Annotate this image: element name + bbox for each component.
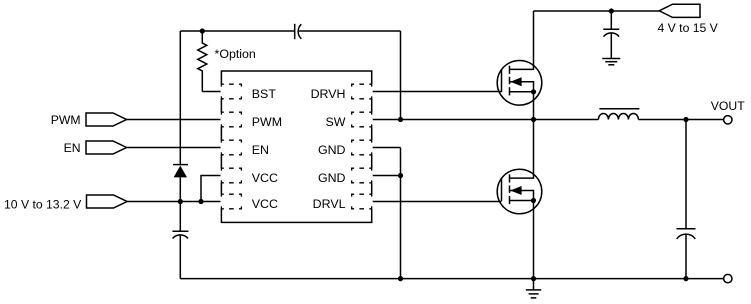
svg-text:PWM: PWM bbox=[252, 115, 282, 129]
pin box dashes DRVH bbox=[352, 84, 372, 99]
inductor L1 bbox=[598, 109, 639, 120]
wire bootstrap cap vertical bbox=[400, 31, 402, 120]
svg-text:DRVH: DRVH bbox=[311, 87, 346, 101]
node junction vcc elbow bbox=[198, 199, 203, 204]
svg-text:10 V to 13.2 V: 10 V to 13.2 V bbox=[4, 198, 82, 212]
pin stub SW wire to inductor bbox=[372, 119, 599, 121]
pin box PWM bbox=[221, 112, 242, 127]
diode D1 bootstrap bbox=[173, 165, 188, 178]
svg-text:GND: GND bbox=[318, 143, 346, 157]
capacitor CBST bootstrap bbox=[295, 24, 302, 39]
pin stub DRVH bbox=[372, 91, 502, 93]
pin box GND1 bbox=[352, 140, 373, 155]
pin box DRVH bbox=[352, 84, 373, 99]
svg-text:BST: BST bbox=[252, 87, 277, 101]
node junction gnd rail bbox=[398, 276, 403, 281]
svg-text:GND: GND bbox=[318, 171, 346, 185]
svg-text:EN: EN bbox=[64, 141, 81, 155]
wire EN to pin bbox=[127, 147, 222, 149]
op-amp U1 driver IC body bbox=[221, 71, 371, 222]
wire bottom rail bbox=[180, 278, 723, 280]
wire vcc cap to bottom rail bbox=[179, 235, 181, 279]
node junction SW bootstrap bbox=[398, 117, 403, 122]
node junction output cap rail bbox=[683, 276, 688, 281]
node junction input cap bbox=[609, 8, 614, 13]
pin box dashes GND1 bbox=[352, 140, 372, 155]
wire inductor to vout bbox=[638, 119, 723, 121]
resistor R-option bbox=[198, 31, 207, 92]
transistor Q1 high-side nmos bbox=[497, 11, 542, 120]
pin box VCC2 bbox=[221, 194, 242, 209]
capacitor C-IN input bbox=[603, 11, 619, 59]
pin box dashes VCC2 bbox=[221, 194, 241, 209]
wire elbow to upper VCC pin bbox=[201, 176, 221, 202]
wire GND vertical bbox=[400, 148, 402, 279]
wire top bootstrap right segment bbox=[298, 30, 400, 32]
wire resistor to BST pin bbox=[202, 91, 221, 93]
input tab 10V-13.2V bbox=[87, 195, 128, 208]
node junction GND2 bbox=[398, 173, 403, 178]
svg-text:PWM: PWM bbox=[51, 113, 81, 127]
input tab 4V-15V bbox=[659, 4, 700, 17]
pin box dashes PWM bbox=[221, 112, 241, 127]
wire top supply rail bbox=[534, 10, 660, 12]
pin box dashes DRVL bbox=[352, 194, 372, 209]
wire top bootstrap left segment bbox=[180, 30, 294, 32]
node junction vcc rail bbox=[178, 199, 183, 204]
svg-text:VCC: VCC bbox=[252, 171, 278, 185]
node junction SW fet bbox=[531, 117, 536, 122]
ground main bbox=[526, 279, 541, 298]
wire left rail diode to vcc junction bbox=[179, 177, 181, 231]
wire PWM to pin bbox=[127, 119, 222, 121]
pin box GND2 bbox=[352, 168, 373, 183]
node junction top resistor bbox=[200, 28, 205, 33]
wire left rail upper (top wire to diode cathode) bbox=[179, 31, 181, 165]
svg-text:*Option: *Option bbox=[215, 47, 256, 61]
pin box dashes VCC1 bbox=[221, 168, 241, 183]
pin box EN bbox=[221, 140, 242, 155]
ground input cap bbox=[602, 59, 620, 65]
terminal VOUT bbox=[724, 116, 732, 124]
pin stub DRVL wire to gate bbox=[372, 201, 502, 203]
pin box dashes SW bbox=[352, 112, 372, 127]
svg-text:SW: SW bbox=[326, 115, 346, 129]
wire 10V to VCC pin bbox=[127, 201, 221, 203]
pin box VCC1 bbox=[221, 168, 242, 183]
svg-text:VCC: VCC bbox=[252, 197, 278, 211]
svg-text:DRVL: DRVL bbox=[313, 197, 346, 211]
input tab EN bbox=[86, 141, 127, 154]
terminal bottom right bbox=[724, 274, 732, 282]
svg-text:4 V to 15 V: 4 V to 15 V bbox=[658, 21, 719, 35]
node junction vout bbox=[683, 117, 688, 122]
node junction fet source rail bbox=[531, 276, 536, 281]
pin box DRVL bbox=[352, 194, 373, 209]
pin box SW bbox=[352, 112, 373, 127]
pin stub GND2 bbox=[372, 175, 401, 177]
pin box dashes GND2 bbox=[352, 168, 372, 183]
pin box BST bbox=[221, 84, 242, 99]
capacitor C-VCC decoupling bbox=[172, 231, 188, 238]
pin stub GND1 bbox=[372, 147, 401, 149]
svg-text:VOUT: VOUT bbox=[711, 99, 745, 113]
input tab PWM bbox=[86, 113, 127, 126]
pin box dashes BST bbox=[221, 84, 241, 99]
pin box dashes EN bbox=[221, 140, 241, 155]
svg-text:EN: EN bbox=[252, 143, 269, 157]
capacitor C-OUT output bbox=[677, 120, 696, 279]
transistor Q2 low-side nmos bbox=[497, 120, 542, 279]
